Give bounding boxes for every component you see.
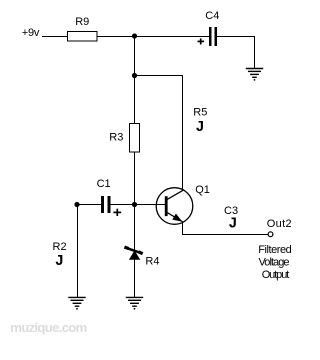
polarity + of C4 [198,38,205,44]
wire collector vertical [182,75,184,191]
ground (R4 rail) [126,297,143,309]
transistor Q1 [156,188,193,225]
wire C1 to base [110,204,166,206]
svg-text:Output: Output [262,269,290,281]
svg-text:Voltage: Voltage [259,257,290,269]
svg-text:+9v: +9v [22,27,40,39]
wire corner down to ground [254,36,256,69]
wire main vertical rail down to R3 [134,36,136,124]
svg-text:R3: R3 [109,131,123,143]
svg-text:J: J [196,119,205,136]
wire C4 to corner [217,36,256,38]
resistor R9 [68,32,98,42]
svg-text:Q1: Q1 [195,184,210,196]
wire emitter down [182,222,184,236]
wire emitter to output terminal [182,234,268,236]
output terminal Out2 [268,232,273,237]
junction node at C1 output [132,202,137,207]
zener diode R4 [124,247,142,260]
svg-text:C1: C1 [97,178,111,190]
wire R9 to C4 [97,36,210,38]
svg-text:J: J [55,253,64,270]
polarity + of C1 [113,209,121,216]
svg-text:R5: R5 [193,107,207,119]
wire +9v to R9 [42,36,68,38]
node dot at C1 input corner [74,202,79,207]
junction node at R9 output [132,33,137,38]
wire R3 to zener rail [134,152,136,250]
svg-text:muzique.com: muzique.com [10,320,87,335]
svg-text:R4: R4 [145,256,159,268]
wire input corner to C1 [77,204,101,206]
capacitor C1 [102,196,109,213]
junction node to collector branch [132,73,137,78]
svg-text:C4: C4 [205,10,219,22]
wire zener to ground [134,259,136,298]
svg-text:Out2: Out2 [267,218,292,230]
svg-text:Filtered: Filtered [258,244,292,256]
ground (R2 rail) [68,297,85,309]
svg-text:J: J [228,216,237,233]
wire left rail down to ground [77,205,79,299]
wire branch to collector corner [135,75,184,77]
capacitor C4 [210,27,215,46]
svg-text:R9: R9 [75,16,89,28]
resistor R3 [130,124,140,152]
label Filtered Voltage Output [258,244,292,281]
svg-text:R2: R2 [53,241,67,253]
ground (C4) [246,69,263,81]
